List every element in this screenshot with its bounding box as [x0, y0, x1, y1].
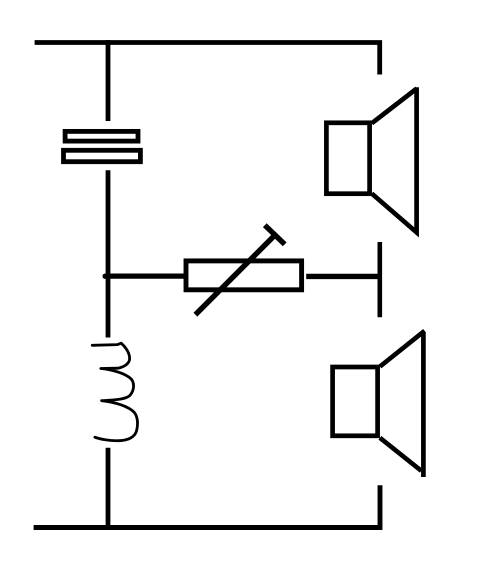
speaker SP1 driver box [326, 123, 369, 194]
wire top bus with right stub [35, 43, 380, 75]
variable resistor R1 diagonal arrow [195, 233, 276, 315]
speaker SP2 driver box [333, 367, 378, 436]
variable resistor R1 body [186, 261, 302, 290]
wire from top bus down to capacitor [106, 40, 111, 121]
wire resistor to terminal bar [306, 274, 377, 279]
variable resistor R1 tee crossbar [265, 225, 285, 244]
capacitor C1 bottom plate [64, 150, 141, 161]
speaker SP2 cone [380, 331, 425, 477]
inductor L1 hand-drawn coil [92, 343, 137, 441]
terminal bar [377, 242, 382, 317]
speaker SP1 cone [372, 87, 417, 232]
wire bottom bus with right stub [34, 485, 380, 527]
wire inductor to bottom bus [106, 448, 111, 530]
node junction dot [103, 274, 108, 279]
wire from capacitor down through junction to inductor [106, 170, 111, 337]
capacitor C1 top plate [65, 131, 138, 141]
wire junction to variable resistor [107, 273, 184, 278]
